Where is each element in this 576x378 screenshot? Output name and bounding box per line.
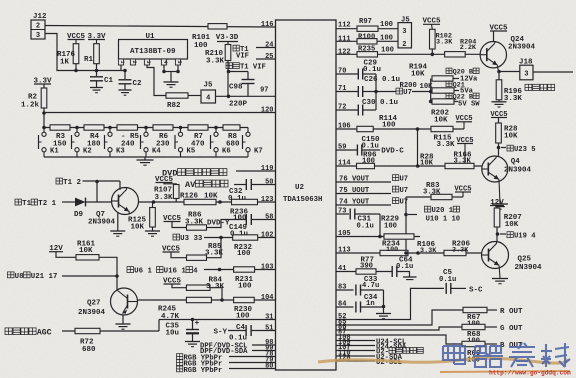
resistor R100 xyxy=(357,39,377,44)
wire 接T1-2 to Q7 collector xyxy=(83,180,121,182)
resistor R97 xyxy=(357,26,378,31)
power rail VCC5 row106 xyxy=(463,122,465,129)
chain junction dots xyxy=(75,126,79,130)
wire pin128 U2-SCL xyxy=(336,360,375,362)
node row106 xyxy=(416,127,420,131)
wire U1 pin3 to R82 xyxy=(147,65,166,96)
node bus dots xyxy=(74,69,78,73)
label 接高频头AGC xyxy=(5,328,36,335)
power rail VCC5 R83 xyxy=(452,196,463,198)
connector J18 xyxy=(499,71,520,73)
capacitor C1 xyxy=(96,71,98,77)
label 接U19 4 xyxy=(500,233,506,235)
resistor R83 xyxy=(431,194,452,199)
resistor R231 xyxy=(234,267,255,272)
resistor R161 xyxy=(56,252,76,258)
resistor R176 xyxy=(75,40,77,44)
resistor R196 xyxy=(498,72,500,80)
resistor R82 xyxy=(166,93,188,98)
switch K7 xyxy=(247,128,249,133)
wire U2 pin111 row xyxy=(336,40,398,42)
node row113 b xyxy=(416,251,420,255)
resistor R72 xyxy=(75,328,100,333)
resistor R206 xyxy=(444,250,466,255)
resistor R77 xyxy=(356,269,376,274)
wire J5 to U2 pin97 xyxy=(216,95,276,97)
resistor R232 xyxy=(233,235,258,240)
resistor R207 xyxy=(496,206,498,209)
resistor R67 xyxy=(463,307,487,312)
resistor R68 xyxy=(462,324,485,329)
switch K6 xyxy=(215,128,217,133)
label 接RGB YPbPr row80 xyxy=(177,366,183,372)
keypad bottom bus xyxy=(44,156,248,158)
wire Q27 to U2 pin104 xyxy=(138,299,276,301)
transistor Q24 2N3904 xyxy=(493,31,495,42)
resistor R102 xyxy=(431,24,434,29)
resistor R194 xyxy=(432,76,453,81)
cap common bus to 接U7 xyxy=(375,74,377,110)
node C33/C34 junction to ground xyxy=(382,305,386,309)
label 75 UOUT xyxy=(336,193,391,195)
capacitor C30 xyxy=(357,105,359,116)
node row104 xyxy=(220,298,224,302)
label 接Q21 5Va xyxy=(446,81,452,86)
capacitor C4 xyxy=(228,330,246,332)
Q25 emitter ground xyxy=(498,267,501,278)
diode D9 xyxy=(62,201,75,203)
resistor R236 xyxy=(232,199,258,204)
resistor R245 xyxy=(186,297,211,302)
wire Q24 emitter node xyxy=(498,68,500,72)
transistor Q4 2N3904 xyxy=(482,156,508,182)
wire R83 net xyxy=(406,196,431,198)
capacitor C33 xyxy=(355,285,357,296)
resistor R210 xyxy=(227,42,229,45)
capacitor C32 xyxy=(245,179,247,190)
label 接T1 VIF pin24 xyxy=(233,45,239,51)
wire U2 pin85 to R OUT xyxy=(336,310,463,325)
wire U2 pin106 row xyxy=(336,128,464,130)
wire to U2 pin119 xyxy=(236,170,276,172)
label 接U20 1及 U10 1 10 xyxy=(404,213,408,217)
wire row106 to row114 xyxy=(417,129,419,166)
wire U2 pin41 row xyxy=(336,271,392,273)
switch K3 xyxy=(109,128,111,133)
wire R86 to DVD-Y net xyxy=(207,220,247,228)
wire U2 pin114 row to Q4 base xyxy=(336,165,482,167)
resistor R107 xyxy=(164,183,176,185)
wire U2 pin73 row xyxy=(336,213,349,215)
wire J12 pin2 to U2 pin116 xyxy=(45,26,276,28)
resistor R126 xyxy=(184,199,216,204)
transistor Q7 2N3904 xyxy=(112,188,139,215)
wire R82 to J5 xyxy=(188,95,201,97)
label 接T1 2 xyxy=(56,178,63,184)
resistor R6 xyxy=(153,125,173,130)
wire down to resistor chain xyxy=(43,113,45,128)
Q4 emitter ground xyxy=(499,180,500,204)
capacitor C35 electrolytic xyxy=(192,320,194,330)
wire U2 pin59 DVD-C xyxy=(336,149,357,151)
watermark orange band xyxy=(318,358,566,363)
capacitor C34 xyxy=(355,302,357,313)
resistor R234 xyxy=(380,250,408,255)
wire U2 pin122 row to Q24 base xyxy=(336,53,481,55)
wire R207 to Q25 collector xyxy=(496,227,498,242)
wire U2 pin24 stub xyxy=(256,47,276,49)
wire U2 pin112 row xyxy=(336,28,398,30)
resistor R3 xyxy=(50,125,70,130)
wires U1 pins 4,5 to ground xyxy=(163,65,165,72)
label 接U6 1 及U16 1、4 xyxy=(127,267,134,273)
resistor R1 xyxy=(96,40,98,44)
wire U2 pin25 stub xyxy=(256,58,276,60)
label 接逆变器 xyxy=(525,84,555,90)
wire R84 to row104 junction xyxy=(210,288,222,300)
label 接U23 5 xyxy=(501,147,506,149)
resistor R202 xyxy=(432,99,454,104)
U1 pins 1-5 xyxy=(118,59,123,65)
resistor R229 xyxy=(384,234,414,239)
resistor R69 xyxy=(462,341,485,346)
watermark url text xyxy=(440,371,570,372)
label 接RGB YPbPr row79 xyxy=(177,360,183,366)
wire row31 to U2 pin31 xyxy=(159,319,276,321)
wire U2 pin70 row xyxy=(336,73,358,75)
wire pin109 U24-SDA xyxy=(336,345,375,347)
label 接U3 33 xyxy=(173,234,180,240)
wire U2 pin86 to G OUT xyxy=(336,327,462,330)
capacitor C150 xyxy=(356,145,358,156)
transistor Q27 2N3904 xyxy=(116,276,118,288)
wire base tap xyxy=(96,182,98,203)
resistor R5 xyxy=(117,125,138,130)
wire U2 pin83 row xyxy=(336,289,354,291)
wire R210 to pin97 node xyxy=(227,61,229,97)
resistor R200 xyxy=(432,88,454,93)
wire U2 pin52 row xyxy=(336,288,444,319)
label 74 YOUT xyxy=(336,204,391,206)
wire U2 pin105 row xyxy=(336,236,420,238)
wire AGC through R72 xyxy=(62,330,159,332)
resistor R101 xyxy=(208,24,227,29)
wire U2 pin72 row xyxy=(336,109,358,111)
wire pin108 U24-SCL xyxy=(336,340,375,342)
label 接T1、T2 1 xyxy=(15,199,22,205)
wire pin107 U2-chip-select xyxy=(336,350,375,352)
switch K2 xyxy=(76,128,78,133)
resistor R4 xyxy=(84,125,104,130)
label 接T1 VIF pin25 xyxy=(226,63,239,69)
keypad resistor chain wire xyxy=(44,127,248,129)
resistor R2 xyxy=(43,84,45,88)
capacitor C26 xyxy=(357,86,359,97)
resistor R7 xyxy=(188,125,208,130)
wire U1 pin1 to bus xyxy=(120,65,122,71)
wire U2 pin113 row to Q25 base xyxy=(336,252,482,254)
capacitor C31 xyxy=(349,209,351,220)
wire U2 pin87 to B OUT xyxy=(336,335,462,344)
resistor R114 xyxy=(357,126,373,131)
node pin123 junction xyxy=(218,200,222,204)
node R2 output xyxy=(42,111,46,115)
IC U2 TDA15063H xyxy=(276,20,337,370)
node row113 a xyxy=(404,251,408,255)
wire to R bus xyxy=(412,91,431,93)
label 接RGB YPbPr row78 xyxy=(177,354,183,360)
wire to U2 pin102 xyxy=(204,237,276,239)
switch K1 xyxy=(43,128,45,133)
capacitor C98 xyxy=(229,71,249,73)
node row114 xyxy=(416,164,420,168)
capacitor C64 xyxy=(391,266,393,277)
switch K5 xyxy=(180,128,182,133)
resistor R230 xyxy=(234,297,255,302)
wire keypad bus to U2 pin120 xyxy=(44,112,276,114)
capacitor C29 xyxy=(357,69,359,80)
resistor R166 xyxy=(445,163,474,168)
wire J12 pin3 to supply bus xyxy=(45,34,125,71)
resistor R204 xyxy=(445,52,466,57)
wire C31 down to row105 xyxy=(379,214,381,237)
wire R85 to row102 xyxy=(207,238,222,258)
capacitor C5 xyxy=(445,283,447,294)
wire pin110 U2-SDA xyxy=(336,355,375,357)
wire R161 to Q27 base node xyxy=(99,257,117,276)
label 接U8及U21 17 xyxy=(8,272,15,278)
resistor R125 xyxy=(152,202,154,208)
wire to U2 pin103 xyxy=(204,269,276,271)
capacitor C149 xyxy=(245,214,247,225)
watermark blue characters 电器资料 xyxy=(443,343,570,367)
label 76 VOUT xyxy=(336,181,391,183)
resistor R84 xyxy=(172,284,186,288)
resistor R85 xyxy=(171,252,187,258)
capacitor C2 xyxy=(124,71,126,80)
transistor Q25 2N3904 xyxy=(482,242,509,269)
wire Q7 to U2 pin123 xyxy=(139,201,276,203)
wire U2 pin71 row xyxy=(336,91,358,93)
switch K4 xyxy=(145,128,147,133)
resistor R115 xyxy=(431,126,453,131)
wire 接U8 to node xyxy=(62,275,117,277)
wire bend to row31 xyxy=(158,320,160,332)
keypad ground xyxy=(144,157,146,160)
label 接Q22 B极 5V SW xyxy=(446,93,452,98)
wire C33 to gnd node xyxy=(383,290,385,307)
resistor R8 xyxy=(223,125,240,130)
resistor R96 xyxy=(357,163,375,168)
resistor R86 xyxy=(172,222,187,228)
wire U2 pin84 row xyxy=(336,306,354,308)
label 接Q20 B极 12Va xyxy=(446,68,452,73)
wire AV to C32 xyxy=(234,184,246,186)
label 接U7 mid xyxy=(396,88,403,94)
resistor R28 vertical xyxy=(498,118,500,124)
bus for R194/R200/R202 xyxy=(430,79,432,102)
resistor R235 xyxy=(357,52,378,57)
